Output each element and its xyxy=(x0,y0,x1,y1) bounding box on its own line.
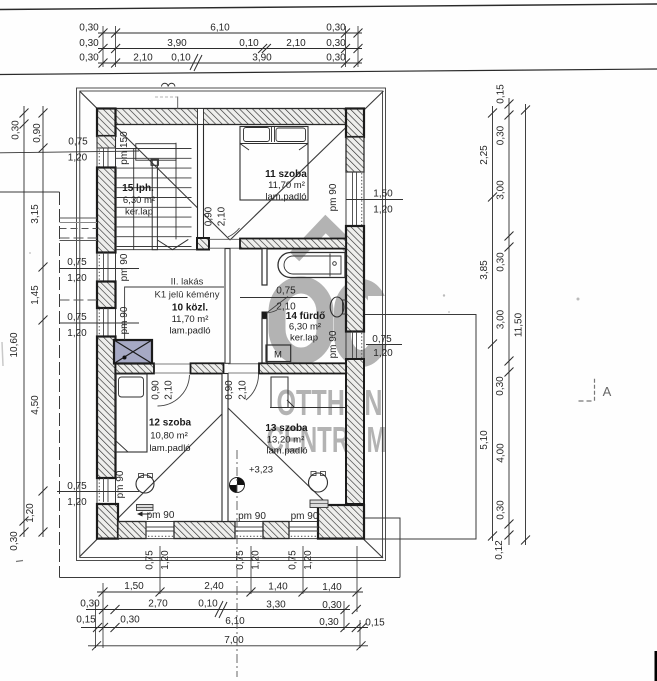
bottom dim row 1 xyxy=(97,591,363,593)
svg-text:2,10: 2,10 xyxy=(133,53,153,64)
svg-text:0,75: 0,75 xyxy=(67,481,87,492)
svg-text:0,30: 0,30 xyxy=(326,23,346,34)
svg-text:0,30: 0,30 xyxy=(326,53,346,64)
svg-text:lam.padló: lam.padló xyxy=(149,443,190,454)
door arc room11 xyxy=(228,228,240,237)
bottom dim row 4 total xyxy=(88,645,368,647)
svg-text:pm 90: pm 90 xyxy=(115,470,126,498)
wall bath and room13 xyxy=(259,363,346,373)
top dim row 3 xyxy=(98,62,362,64)
svg-text:1,20: 1,20 xyxy=(67,497,87,508)
lower storey outline left leader xyxy=(0,191,60,193)
svg-text:0,10: 0,10 xyxy=(171,53,191,64)
svg-text:0,10: 0,10 xyxy=(198,599,218,610)
bed room12 xyxy=(116,374,147,452)
svg-text:2,10: 2,10 xyxy=(276,302,296,313)
page top rule xyxy=(0,4,657,10)
svg-text:12 szoba: 12 szoba xyxy=(149,418,192,429)
bottom wall window W9 glazing xyxy=(289,527,318,531)
svg-text:0,12: 0,12 xyxy=(494,540,505,560)
svg-text:1,40: 1,40 xyxy=(322,582,342,593)
door room13 threshold xyxy=(228,364,259,373)
svg-text:6,10: 6,10 xyxy=(225,616,245,627)
chimney K1 xyxy=(114,340,152,364)
door room11 threshold xyxy=(209,239,240,248)
svg-text:M: M xyxy=(274,350,282,361)
logo letter C xyxy=(343,288,380,359)
right chain line C xyxy=(525,104,527,545)
svg-text:pm 90: pm 90 xyxy=(291,511,319,522)
svg-text:lam.padló: lam.padló xyxy=(265,192,306,203)
svg-text:1,20: 1,20 xyxy=(303,550,314,570)
svg-text:0,30: 0,30 xyxy=(322,600,342,611)
section line A-A dash dot xyxy=(236,450,238,677)
svg-text:1,20: 1,20 xyxy=(373,348,393,359)
svg-text:1,50: 1,50 xyxy=(373,189,393,200)
svg-text:2,10: 2,10 xyxy=(217,206,228,226)
left wall small pier under corner xyxy=(97,136,116,148)
bottom wall window W8 glazing xyxy=(235,527,263,531)
svg-text:0,90: 0,90 xyxy=(151,380,162,400)
right wall window W6 glazing xyxy=(353,332,357,360)
FURNITURE xyxy=(114,83,346,516)
svg-text:4,50: 4,50 xyxy=(30,395,41,415)
logo house roof xyxy=(299,224,350,252)
left wall window W2 glazing xyxy=(104,253,109,282)
bed room11 blanket line xyxy=(240,143,308,145)
svg-text:7,00: 7,00 xyxy=(224,635,244,646)
svg-text:0,30: 0,30 xyxy=(496,500,507,520)
svg-text:1,20: 1,20 xyxy=(67,273,87,284)
svg-text:2,25: 2,25 xyxy=(479,145,490,165)
bed room11 xyxy=(240,127,308,201)
MISC xyxy=(2,252,612,677)
OUTLINE xyxy=(0,192,476,578)
svg-text:11,70 m²: 11,70 m² xyxy=(268,180,305,191)
partition room12 and room13 xyxy=(222,374,228,522)
door jamb block room11 xyxy=(197,238,209,250)
svg-text:0,30: 0,30 xyxy=(120,615,140,626)
chimney roof stub xyxy=(177,97,179,110)
faint scan artifacts left edge xyxy=(2,342,3,366)
bottom wall corner block (SE) xyxy=(318,505,364,539)
partition junction strip in top wall xyxy=(198,109,204,125)
svg-text:1,40: 1,40 xyxy=(268,582,288,593)
svg-text:ker.lap: ker.lap xyxy=(290,333,318,344)
partition kozl and bath corridor xyxy=(225,249,230,364)
svg-text:0,75: 0,75 xyxy=(372,334,392,345)
svg-text:3,85: 3,85 xyxy=(479,260,490,280)
wall room11 and bath xyxy=(240,239,346,249)
WATERMARK xyxy=(267,224,391,460)
bath west wall upper xyxy=(262,249,267,285)
svg-text:0,30: 0,30 xyxy=(495,376,506,396)
svg-text:10 közl.: 10 közl. xyxy=(172,303,208,314)
level marker xyxy=(230,478,245,493)
top wall corner block A (NW) xyxy=(97,109,116,137)
door arc room12 xyxy=(158,375,190,406)
svg-text:0,15: 0,15 xyxy=(496,84,507,104)
roof hip diagonal bottom-left xyxy=(80,408,229,557)
stair bottom edge xyxy=(116,249,198,251)
svg-text:13 szoba: 13 szoba xyxy=(265,423,308,434)
page second rule xyxy=(0,69,657,75)
wall block east of room12 door xyxy=(191,363,224,373)
svg-text:pm 150: pm 150 xyxy=(119,131,130,165)
window projection lines left xyxy=(60,218,98,300)
svg-text:2,10: 2,10 xyxy=(238,380,249,400)
left wall pier A xyxy=(97,168,116,253)
bottom dim row 3 xyxy=(81,627,368,629)
svg-text:0,75: 0,75 xyxy=(67,312,87,323)
section marker A bracket xyxy=(594,379,596,402)
wall speckle dotted lines xyxy=(97,109,364,539)
lower storey outline left edge xyxy=(59,192,61,578)
door arc bath xyxy=(267,310,278,313)
terrace rectangle xyxy=(364,315,476,540)
svg-text:14 fürdő: 14 fürdő xyxy=(286,311,325,322)
bottom wall pier 1 xyxy=(118,522,146,539)
stair stringer lines xyxy=(133,149,135,250)
roof hip diagonal top-right xyxy=(230,91,384,240)
washing machine M xyxy=(266,345,291,362)
bath door jamb xyxy=(262,312,267,319)
svg-text:pm 90: pm 90 xyxy=(119,253,130,281)
svg-text:lam.padló: lam.padló xyxy=(169,326,210,337)
svg-text:2,10: 2,10 xyxy=(286,38,306,49)
stove room13 xyxy=(309,473,328,492)
svg-text:5,10: 5,10 xyxy=(479,430,490,450)
roof eaves inner rect xyxy=(80,91,383,558)
svg-text:0,30: 0,30 xyxy=(9,531,20,551)
svg-text:0,75: 0,75 xyxy=(68,137,88,148)
svg-text:0,30: 0,30 xyxy=(496,252,507,272)
svg-text:6,10: 6,10 xyxy=(210,23,230,34)
wall kozl and room12 xyxy=(116,363,155,373)
svg-text:II. lakás: II. lakás xyxy=(171,277,204,288)
left wall window W3 glazing xyxy=(104,308,109,337)
svg-text:A: A xyxy=(603,384,612,399)
svg-text:1,20: 1,20 xyxy=(373,205,393,216)
svg-text:0,90: 0,90 xyxy=(32,123,43,143)
left chain line 1 (10,60) xyxy=(23,106,25,537)
svg-text:1,20: 1,20 xyxy=(68,153,88,164)
svg-text:2,70: 2,70 xyxy=(148,599,168,610)
bottom wall pier 2 xyxy=(174,522,235,539)
svg-text:pm 90: pm 90 xyxy=(147,510,175,521)
svg-text:1,20: 1,20 xyxy=(25,503,36,523)
right chain line A xyxy=(492,106,494,541)
bed room12 fold xyxy=(116,441,128,452)
roof eaves outer rect xyxy=(77,88,386,561)
svg-text:1,50: 1,50 xyxy=(124,581,144,592)
top dim witness lines xyxy=(102,26,104,67)
svg-text:0,15: 0,15 xyxy=(76,615,96,626)
left chain line 2 xyxy=(42,106,44,537)
radiator arrow W7 xyxy=(139,513,150,515)
chimney leader line xyxy=(125,287,224,340)
DIMS xyxy=(9,23,530,651)
svg-text:3,30: 3,30 xyxy=(266,600,286,611)
svg-text:11,70 m²: 11,70 m² xyxy=(172,314,209,325)
svg-text:K1 jelû kémény: K1 jelû kémény xyxy=(155,290,220,301)
svg-text:pm 90: pm 90 xyxy=(328,183,339,211)
svg-text:lam.padló: lam.padló xyxy=(266,446,307,457)
right wall long pier south xyxy=(346,359,364,504)
top symbol xyxy=(162,83,175,86)
logo letter O xyxy=(277,285,325,356)
bath west wall lower xyxy=(262,319,267,364)
bed room12 pillow xyxy=(119,377,144,397)
lower storey outline right step xyxy=(364,518,400,578)
svg-text:0,75: 0,75 xyxy=(288,550,299,570)
bottom wall window W7 glazing xyxy=(146,522,174,539)
lower storey outline bottom edge xyxy=(60,577,401,579)
svg-text:pm 90: pm 90 xyxy=(119,306,130,334)
stair upper landing outline xyxy=(136,144,176,161)
svg-text:0,75: 0,75 xyxy=(145,550,156,570)
svg-text:0,30: 0,30 xyxy=(79,53,99,64)
bed room11 pillow right xyxy=(276,128,306,142)
top dim row 1 xyxy=(98,32,362,34)
svg-text:+3,23: +3,23 xyxy=(249,465,273,476)
svg-text:0,90: 0,90 xyxy=(224,380,235,400)
svg-text:2,10: 2,10 xyxy=(164,380,175,400)
right wall pier below corner B xyxy=(346,137,364,172)
svg-text:pm 90: pm 90 xyxy=(238,511,266,522)
bottom wall corner block D (SW) xyxy=(97,504,118,539)
svg-text:0,30: 0,30 xyxy=(11,120,22,140)
right wall big pier (bath) xyxy=(346,226,364,332)
svg-text:0,10: 0,10 xyxy=(239,38,259,49)
WALLS xyxy=(60,109,365,539)
svg-text:15 lph.: 15 lph. xyxy=(122,183,154,194)
roof hip diagonal top-left xyxy=(80,91,230,240)
top wall corner block B (NE) xyxy=(346,109,364,138)
door leaf bath xyxy=(267,297,289,314)
svg-text:0,30: 0,30 xyxy=(496,125,507,145)
svg-text:0,15: 0,15 xyxy=(365,618,385,629)
svg-text:1,45: 1,45 xyxy=(30,285,41,305)
scan specks xyxy=(577,298,580,301)
toilet xyxy=(330,297,344,317)
svg-text:3,90: 3,90 xyxy=(167,38,187,49)
svg-text:0,30: 0,30 xyxy=(79,38,99,49)
svg-text:1,20: 1,20 xyxy=(67,328,87,339)
left wall pier B xyxy=(97,282,116,309)
svg-text:10,80 m²: 10,80 m² xyxy=(150,431,188,442)
ROOF xyxy=(77,88,386,561)
bottom dim witness lines xyxy=(102,583,104,648)
right wall window W5 glazing xyxy=(346,172,364,226)
top exterior wall band xyxy=(116,109,347,125)
svg-text:13,20 m²: 13,20 m² xyxy=(267,435,305,446)
svg-text:11,50: 11,50 xyxy=(514,312,525,337)
svg-text:3,15: 3,15 xyxy=(30,204,41,224)
bed room11 pillow left xyxy=(244,128,270,142)
svg-text:pm 90: pm 90 xyxy=(328,330,339,358)
svg-text:OTTHON: OTTHON xyxy=(277,382,383,423)
svg-text:11 szoba: 11 szoba xyxy=(265,169,307,180)
left wall window W1 glazing xyxy=(97,148,116,168)
svg-text:1,20: 1,20 xyxy=(251,550,262,570)
stair walkline arrow xyxy=(157,239,188,249)
svg-text:0,30: 0,30 xyxy=(79,23,99,34)
radiator under W7 xyxy=(137,505,154,511)
svg-text:6,30 m²: 6,30 m² xyxy=(289,322,321,333)
stove room12 xyxy=(136,475,154,493)
closet room13 xyxy=(271,377,288,408)
svg-text:2,40: 2,40 xyxy=(204,581,224,592)
stair treads xyxy=(116,149,192,247)
svg-text:3,90: 3,90 xyxy=(252,53,272,64)
door room12 threshold xyxy=(154,364,191,373)
left wall window W4 glazing xyxy=(104,478,109,502)
bathtub xyxy=(278,253,345,278)
svg-text:4,00: 4,00 xyxy=(496,443,507,463)
left wall pier C xyxy=(97,337,116,479)
svg-text:0,30: 0,30 xyxy=(326,38,346,49)
roof hip diagonal bottom-right xyxy=(228,408,383,558)
bottom dim row 2 xyxy=(86,609,350,611)
top dim row 2 xyxy=(98,48,362,50)
svg-text:ker.lap: ker.lap xyxy=(125,207,153,218)
svg-text:0,30: 0,30 xyxy=(319,617,339,628)
partition stairwell and room11 xyxy=(198,125,204,239)
stair center post xyxy=(152,160,157,250)
svg-text:10,60: 10,60 xyxy=(9,332,20,357)
radiator under W9 xyxy=(310,500,328,508)
svg-text:0,75: 0,75 xyxy=(276,286,296,297)
black margin bar bottom right xyxy=(655,651,657,681)
svg-text:1,20: 1,20 xyxy=(160,550,171,570)
svg-text:6,30 m²: 6,30 m² xyxy=(123,195,155,206)
svg-text:3,00: 3,00 xyxy=(496,309,507,329)
right chain line B xyxy=(508,98,510,545)
door arc room13 xyxy=(246,374,259,400)
svg-text:3,00: 3,00 xyxy=(496,180,507,200)
svg-text:0,90: 0,90 xyxy=(204,206,215,226)
svg-text:0,30: 0,30 xyxy=(80,599,100,610)
bed room11 center divider xyxy=(271,127,273,143)
svg-text:0,75: 0,75 xyxy=(67,257,87,268)
bottom wall pier 3 xyxy=(263,522,289,539)
exterior wall face lines xyxy=(97,109,364,539)
